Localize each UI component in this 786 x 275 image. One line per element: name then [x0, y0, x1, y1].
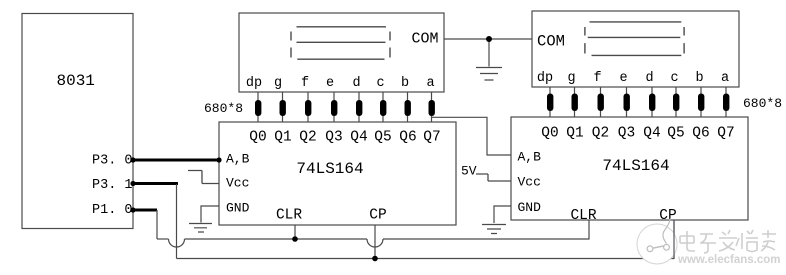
svg-text:d: d	[645, 71, 653, 86]
svg-text:Q1: Q1	[274, 130, 291, 146]
svg-text:GND: GND	[226, 201, 250, 216]
svg-text:COM: COM	[537, 33, 565, 51]
svg-text:CLR: CLR	[276, 208, 302, 224]
svg-text:Q0: Q0	[249, 130, 266, 146]
svg-text:d: d	[352, 76, 360, 91]
svg-text:Q2: Q2	[592, 126, 609, 142]
svg-text:f: f	[301, 76, 309, 91]
svg-text:Vcc: Vcc	[226, 176, 249, 191]
svg-text:5V: 5V	[461, 164, 477, 179]
svg-text:dp: dp	[537, 71, 553, 86]
svg-text:Q4: Q4	[643, 126, 660, 142]
svg-text:Q7: Q7	[717, 126, 734, 142]
svg-text:Q4: Q4	[350, 130, 367, 146]
svg-text:Q5: Q5	[667, 126, 684, 142]
svg-text:e: e	[326, 76, 334, 91]
svg-text:www.elecfans.com: www.elecfans.com	[677, 254, 780, 266]
svg-text:Q6: Q6	[692, 126, 709, 142]
svg-text:e: e	[619, 71, 627, 86]
svg-text:CLR: CLR	[570, 208, 596, 224]
svg-text:Q3: Q3	[325, 130, 342, 146]
svg-text:GND: GND	[518, 200, 542, 215]
svg-text:b: b	[401, 76, 409, 91]
svg-text:Q7: Q7	[423, 130, 440, 146]
svg-text:c: c	[376, 76, 384, 91]
svg-text:b: b	[695, 71, 703, 86]
svg-text:a: a	[721, 71, 729, 86]
svg-text:Q6: Q6	[399, 130, 416, 146]
svg-text:P3. 1: P3. 1	[92, 178, 133, 193]
svg-text:dp: dp	[246, 76, 262, 91]
svg-text:Vcc: Vcc	[518, 175, 541, 190]
svg-text:P3. 0: P3. 0	[92, 154, 133, 169]
svg-text:A,B: A,B	[518, 150, 542, 165]
svg-text:Q1: Q1	[566, 126, 583, 142]
svg-text:74LS164: 74LS164	[602, 157, 669, 175]
svg-text:f: f	[593, 71, 601, 86]
svg-text:680*8: 680*8	[204, 101, 243, 116]
svg-text:CP: CP	[369, 208, 386, 224]
svg-text:Q0: Q0	[541, 126, 558, 142]
svg-text:Q2: Q2	[299, 130, 316, 146]
svg-text:P1. 0: P1. 0	[92, 203, 133, 218]
svg-text:8031: 8031	[57, 72, 95, 90]
svg-text:Q5: Q5	[374, 130, 391, 146]
svg-text:c: c	[670, 71, 678, 86]
svg-text:COM: COM	[411, 31, 438, 48]
svg-text:a: a	[426, 76, 434, 91]
svg-text:g: g	[274, 76, 282, 91]
svg-text:g: g	[567, 71, 575, 86]
svg-text:680*8: 680*8	[743, 96, 782, 111]
svg-text:A,B: A,B	[226, 152, 250, 167]
svg-text:Q3: Q3	[618, 126, 635, 142]
svg-text:74LS164: 74LS164	[296, 160, 363, 178]
